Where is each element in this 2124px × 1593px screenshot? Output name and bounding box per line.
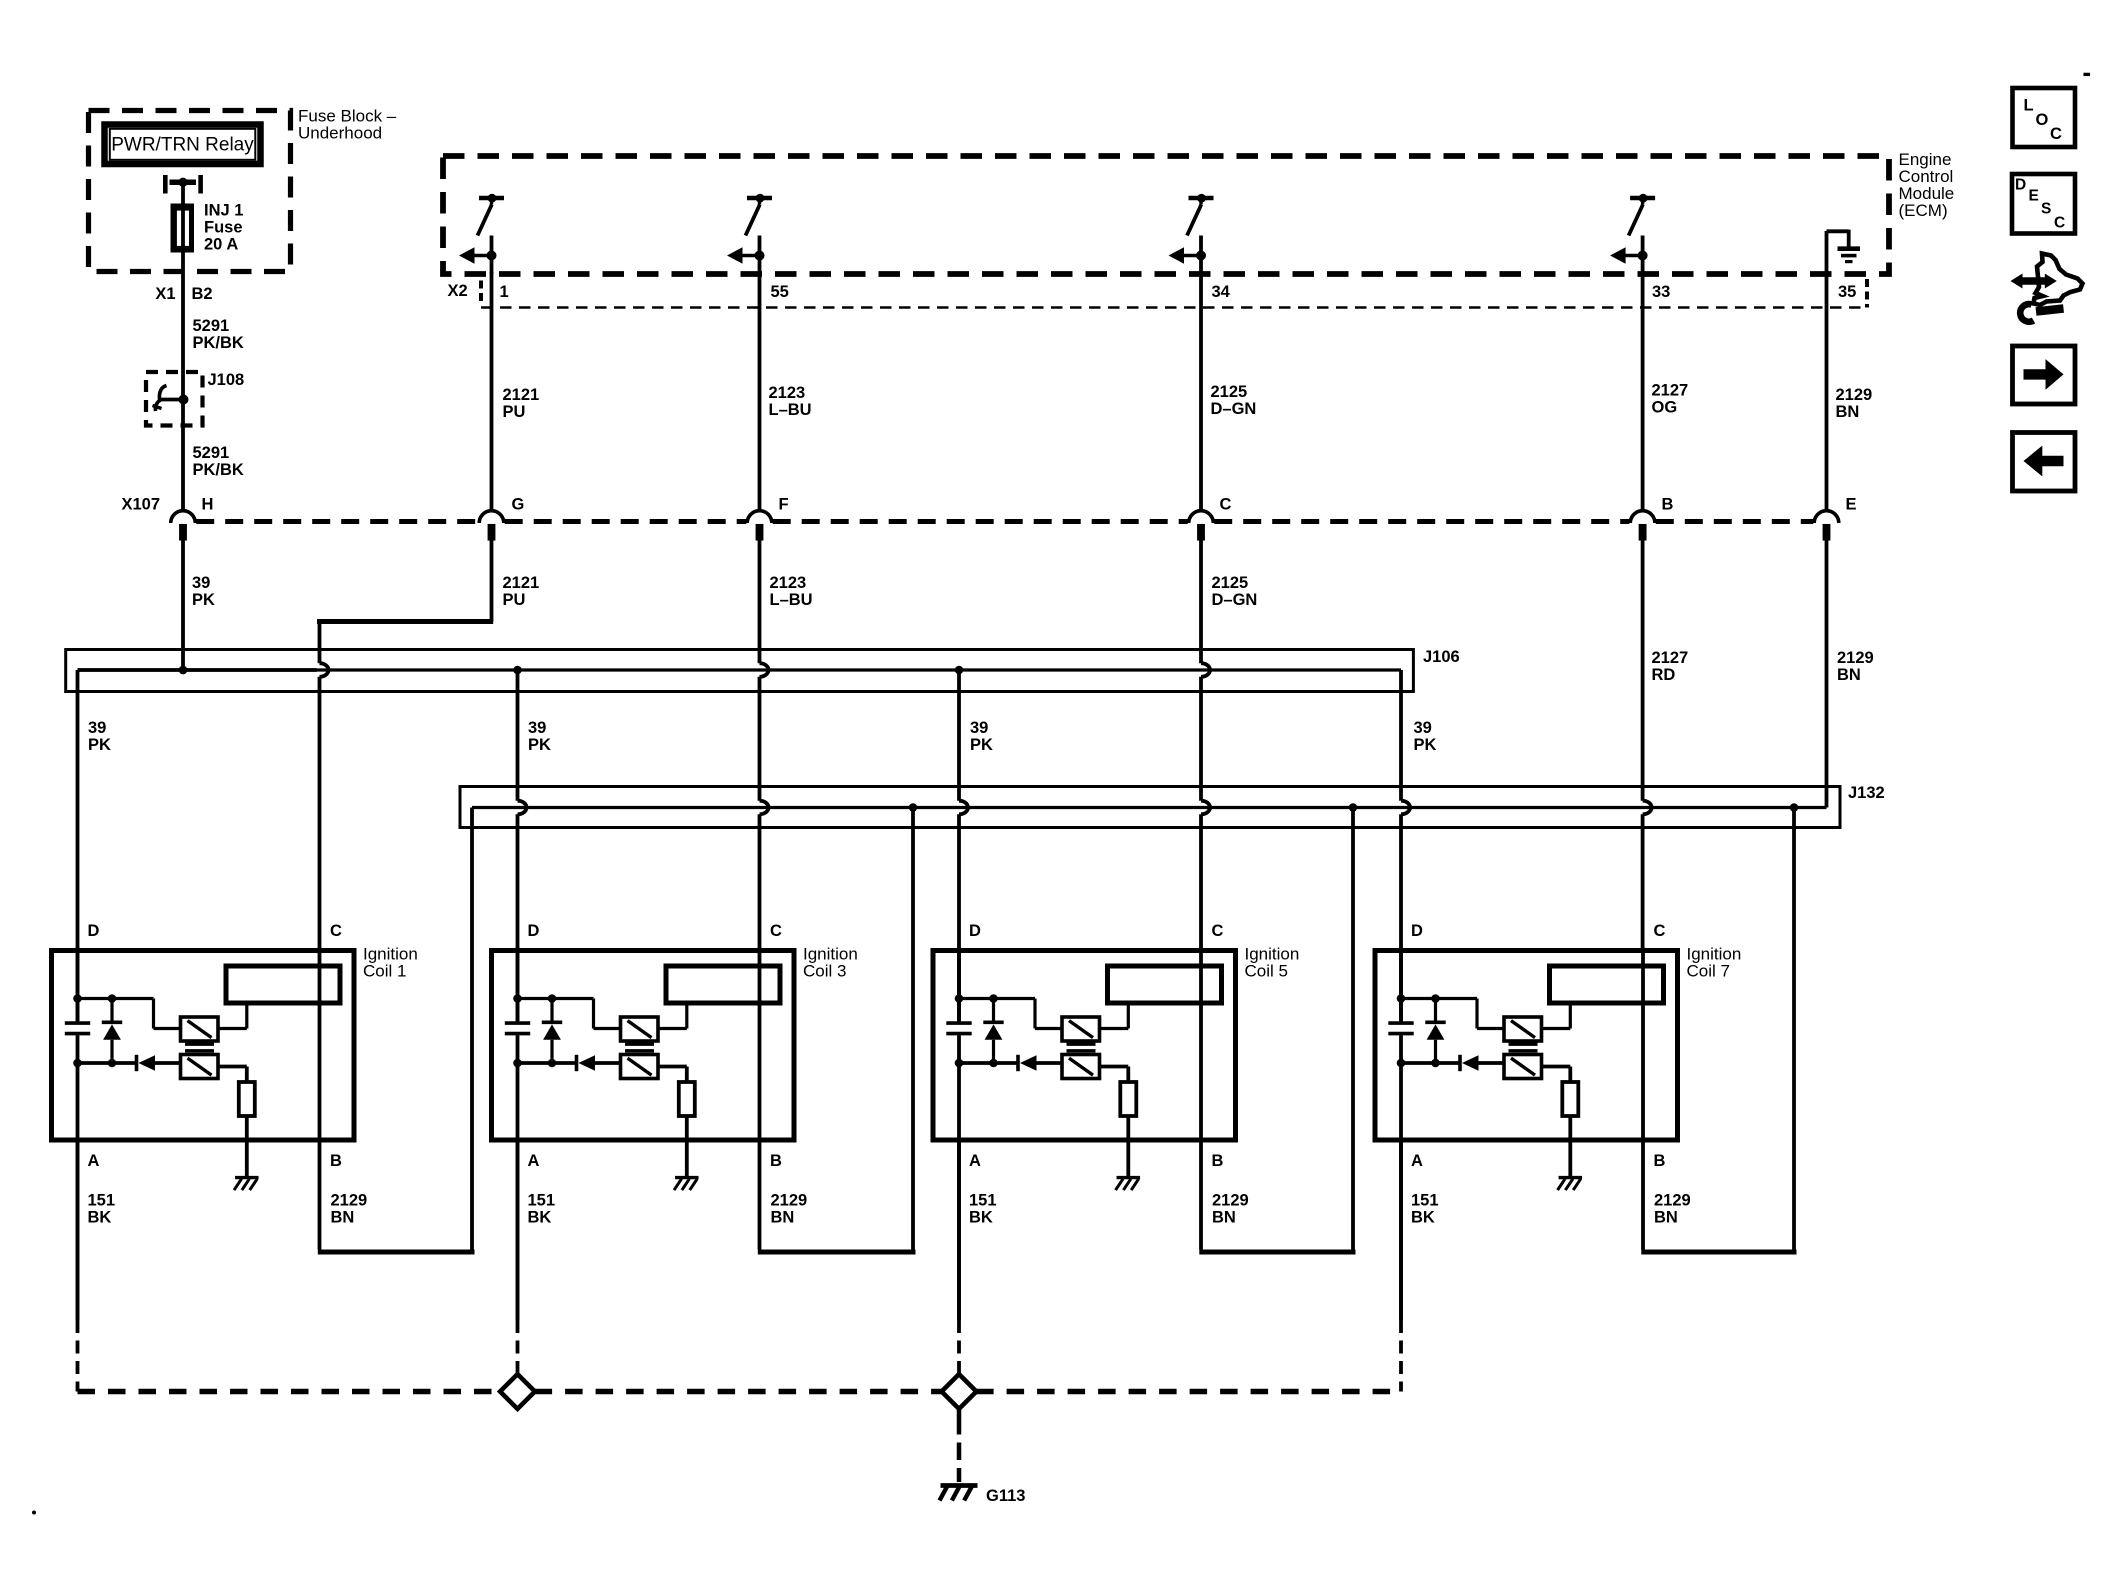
wire 39 PK (J106 to coil 3 D) xyxy=(518,670,552,1021)
ECM box (Engine Control Module, dashed) xyxy=(443,150,1954,274)
svg-text:2125: 2125 xyxy=(1212,574,1249,592)
svg-text:PK: PK xyxy=(970,736,993,754)
svg-text:39: 39 xyxy=(1414,719,1432,737)
svg-text:Underhood: Underhood xyxy=(298,124,382,143)
svg-text:B: B xyxy=(1212,1152,1224,1170)
svg-text:PK/BK: PK/BK xyxy=(193,334,244,352)
svg-text:B: B xyxy=(770,1152,782,1170)
wire 2123 L-BU (X107 F to coil 3 C) xyxy=(760,538,813,951)
svg-text:Coil 3: Coil 3 xyxy=(803,962,846,981)
svg-text:BN: BN xyxy=(1212,1209,1236,1227)
svg-text:34: 34 xyxy=(1212,283,1231,301)
ignition coil 7 xyxy=(1375,922,1741,1320)
svg-text:H: H xyxy=(202,496,214,514)
svg-text:151: 151 xyxy=(88,1192,116,1210)
svg-text:33: 33 xyxy=(1652,283,1670,301)
wire 2127 OG (ECM pin 33 to X107 B) xyxy=(1643,272,1689,511)
svg-text:1: 1 xyxy=(500,283,509,301)
icon LOC xyxy=(2013,88,2076,147)
svg-text:D: D xyxy=(969,922,981,940)
svg-text:5291: 5291 xyxy=(193,444,230,462)
svg-text:PK: PK xyxy=(192,591,215,609)
svg-text:X1: X1 xyxy=(155,285,175,303)
svg-text:2121: 2121 xyxy=(503,386,540,404)
wire 2129 BN loop (coil 1 B to J132) xyxy=(318,808,475,1253)
svg-text:39: 39 xyxy=(88,719,106,737)
icon forward arrow xyxy=(2013,346,2076,404)
J132 internal bus line xyxy=(472,803,1827,812)
svg-text:BK: BK xyxy=(969,1209,993,1227)
svg-text:A: A xyxy=(969,1152,981,1170)
svg-text:A: A xyxy=(1411,1152,1423,1170)
svg-text:BK: BK xyxy=(88,1209,112,1227)
svg-text:PK: PK xyxy=(88,736,111,754)
svg-text:B: B xyxy=(330,1152,342,1170)
svg-text:OG: OG xyxy=(1652,399,1678,417)
svg-text:D: D xyxy=(1411,922,1423,940)
ground bus (dashed) linking 151 BK wires xyxy=(78,1389,1402,1394)
ground G113 xyxy=(940,1409,1026,1506)
svg-text:20 A: 20 A xyxy=(204,236,238,254)
svg-text:(ECM): (ECM) xyxy=(1899,201,1948,220)
svg-text:L: L xyxy=(2024,97,2034,115)
svg-text:151: 151 xyxy=(528,1192,556,1210)
icon back arrow xyxy=(2013,433,2076,492)
wire 2129 BN loop (coil 5 B to J132) xyxy=(1199,808,1355,1253)
J106 internal bus line xyxy=(78,666,1402,675)
svg-text:J132: J132 xyxy=(1848,784,1885,802)
svg-text:X2: X2 xyxy=(448,282,468,300)
svg-text:D: D xyxy=(88,922,100,940)
svg-text:39: 39 xyxy=(528,719,546,737)
svg-text:39: 39 xyxy=(192,574,210,592)
fuse INJ 1 Fuse 20 A xyxy=(173,202,243,254)
splice pack J106 xyxy=(66,648,1460,692)
svg-text:D–GN: D–GN xyxy=(1211,400,1257,418)
ECM X2 pin band (pin numbers row) xyxy=(448,279,1868,308)
svg-text:2129: 2129 xyxy=(771,1192,808,1210)
svg-text:C: C xyxy=(2050,125,2062,143)
ECM internal ground at pin 35 xyxy=(1827,230,1861,262)
svg-text:Coil 1: Coil 1 xyxy=(363,962,406,981)
svg-text:INJ 1: INJ 1 xyxy=(204,202,243,220)
svg-text:151: 151 xyxy=(969,1192,997,1210)
svg-text:B2: B2 xyxy=(192,285,213,303)
svg-text:Coil 7: Coil 7 xyxy=(1687,962,1730,981)
svg-text:2123: 2123 xyxy=(770,574,807,592)
svg-text:L–BU: L–BU xyxy=(769,401,812,419)
svg-text:C: C xyxy=(2054,215,2065,232)
wire 2123 L-BU (ECM pin 55 to X107 F) xyxy=(760,272,812,511)
wire 2121 PU jog (X107 G to coil 1 C column) xyxy=(317,538,539,951)
svg-text:2123: 2123 xyxy=(769,384,806,402)
wire 2125 D-GN (ECM pin 34 to X107 C) xyxy=(1201,272,1256,511)
wire 2121 PU (ECM pin 1 to X107 G) xyxy=(492,272,540,511)
svg-text:BN: BN xyxy=(771,1209,795,1227)
svg-text:O: O xyxy=(2036,111,2049,129)
svg-text:2129: 2129 xyxy=(1212,1192,1249,1210)
connector X107 row (dashed line, connector arcs and pins) xyxy=(122,496,1857,541)
svg-text:D: D xyxy=(2015,177,2026,194)
ignition coil 1 xyxy=(52,922,418,1320)
svg-text:2129: 2129 xyxy=(1654,1192,1691,1210)
ECM low-side driver for pin 55 xyxy=(727,194,772,274)
svg-text:55: 55 xyxy=(771,283,789,301)
svg-text:151: 151 xyxy=(1411,1192,1439,1210)
svg-text:2129: 2129 xyxy=(1836,386,1873,404)
svg-text:BN: BN xyxy=(1654,1209,1678,1227)
svg-text:PWR/TRN Relay: PWR/TRN Relay xyxy=(111,135,254,156)
wire 151 BK (coil 1 A to ground bus) xyxy=(76,1140,80,1392)
svg-text:BK: BK xyxy=(1411,1209,1435,1227)
svg-text:J108: J108 xyxy=(208,371,245,389)
stray mark top right xyxy=(2084,73,2091,76)
svg-text:2127: 2127 xyxy=(1652,649,1689,667)
svg-text:BN: BN xyxy=(1836,403,1860,421)
icon wiring/diagnostic squiggle xyxy=(2011,254,2083,322)
svg-text:E: E xyxy=(2029,188,2039,205)
svg-text:2127: 2127 xyxy=(1652,382,1689,400)
wire 151 BK (coil 7 A to ground bus) xyxy=(1399,1140,1403,1392)
svg-text:F: F xyxy=(779,496,789,514)
svg-text:PK/BK: PK/BK xyxy=(193,461,244,479)
wire 2129 BN (ECM pin 35 to X107 E) xyxy=(1827,231,1873,511)
fuse block - underhood (dashed enclosure) xyxy=(89,107,397,272)
wire 39 PK (J106 to coil 5 D) xyxy=(959,670,993,1021)
svg-text:L–BU: L–BU xyxy=(770,591,813,609)
ignition coil 3 xyxy=(492,922,858,1320)
svg-text:5291: 5291 xyxy=(193,317,230,335)
svg-text:PK: PK xyxy=(528,736,551,754)
wire 151 BK (coil 3 A to ground bus) xyxy=(516,1140,520,1392)
wire 39 PK (J106 left end to coil 1 D) xyxy=(78,670,112,1021)
splice diamond at coil3 ground wire xyxy=(500,1374,535,1409)
svg-text:BN: BN xyxy=(331,1209,355,1227)
relay PWR/TRN Relay xyxy=(105,125,261,165)
svg-text:PU: PU xyxy=(503,403,526,421)
svg-text:D–GN: D–GN xyxy=(1212,591,1258,609)
icon DESC xyxy=(2012,174,2075,234)
svg-text:BN: BN xyxy=(1837,666,1861,684)
svg-text:2121: 2121 xyxy=(503,574,540,592)
svg-text:E: E xyxy=(1846,496,1857,514)
svg-text:RD: RD xyxy=(1652,666,1676,684)
svg-text:BK: BK xyxy=(528,1209,552,1227)
stray mark bottom left xyxy=(32,1511,36,1515)
svg-text:C: C xyxy=(1220,496,1232,514)
wire 2129 BN loop (coil 7 B to J132) xyxy=(1641,808,1796,1253)
svg-text:Fuse: Fuse xyxy=(204,219,243,237)
svg-text:2129: 2129 xyxy=(1837,649,1874,667)
svg-text:A: A xyxy=(88,1152,100,1170)
svg-text:G: G xyxy=(512,496,525,514)
svg-text:C: C xyxy=(770,922,782,940)
svg-text:S: S xyxy=(2041,201,2051,218)
ECM low-side driver for pin 33 xyxy=(1610,194,1655,274)
svg-text:Coil 5: Coil 5 xyxy=(1245,962,1288,981)
splice J108 xyxy=(146,371,244,426)
relay output terminal xyxy=(165,175,200,206)
svg-text:C: C xyxy=(1654,922,1666,940)
svg-text:B: B xyxy=(1662,496,1674,514)
wire 2127 RD (X107 B to coil 7 C) xyxy=(1643,538,1689,951)
wire 2129 BN (X107 E to J132 right end) xyxy=(1827,538,1874,808)
svg-text:X107: X107 xyxy=(122,496,161,514)
wire 5291 PK/BK from fuse to X107 pin H xyxy=(155,250,244,511)
svg-text:35: 35 xyxy=(1838,283,1856,301)
svg-text:2129: 2129 xyxy=(331,1192,368,1210)
ECM low-side driver for pin 34 xyxy=(1169,194,1214,274)
svg-text:C: C xyxy=(1212,922,1224,940)
splice pack J132 xyxy=(460,784,1885,828)
splice diamond at coil5 ground wire (to G113) xyxy=(942,1374,977,1409)
svg-text:D: D xyxy=(528,922,540,940)
svg-text:B: B xyxy=(1654,1152,1666,1170)
svg-text:39: 39 xyxy=(970,719,988,737)
svg-text:A: A xyxy=(528,1152,540,1170)
svg-text:G113: G113 xyxy=(986,1487,1025,1505)
wire 2125 D-GN (X107 C to coil 5 C) xyxy=(1201,538,1257,951)
wire 2129 BN loop (coil 3 B to J132) xyxy=(758,808,916,1253)
svg-text:PK: PK xyxy=(1414,736,1437,754)
svg-text:2125: 2125 xyxy=(1211,383,1248,401)
ECM low-side driver for pin 1 xyxy=(459,194,504,274)
svg-text:C: C xyxy=(330,922,342,940)
svg-text:PU: PU xyxy=(503,591,526,609)
wire 39 PK (X107 H to J106) xyxy=(179,538,215,675)
wire 151 BK (coil 5 A to ground bus) xyxy=(957,1140,961,1392)
ignition coil 5 xyxy=(933,922,1299,1320)
wire 39 PK (J106 right end to coil 7 D) xyxy=(1401,670,1437,1021)
svg-text:J106: J106 xyxy=(1423,648,1460,666)
